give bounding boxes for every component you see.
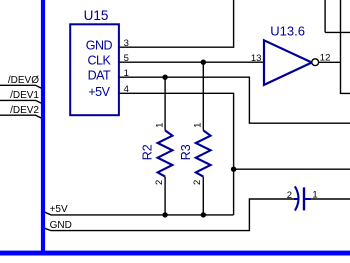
svg-text:1: 1 xyxy=(193,123,204,128)
bus horizontal (bottom border) xyxy=(0,251,350,256)
svg-text:4: 4 xyxy=(124,84,129,95)
wire: R3 bottom lead to +5V rail xyxy=(202,177,204,215)
wire: U15 pin 5 (CLK) to U13 pin 13 xyxy=(119,61,264,63)
inverter U13.6 body xyxy=(264,40,312,85)
wire: R2 top lead from DAT net xyxy=(164,77,166,130)
wire: GND rail from bus to capacitor C pin 2 xyxy=(45,199,295,231)
wire: U15 pin 1 (DAT) right, down, to right edge xyxy=(119,77,350,123)
capacitor C pin 2 lead stub xyxy=(294,198,298,200)
svg-text:3: 3 xyxy=(124,38,129,49)
capacitor C straight plate (pin 1) xyxy=(303,187,305,210)
svg-text:1: 1 xyxy=(124,68,129,79)
svg-text:/DEV1: /DEV1 xyxy=(10,90,39,101)
inverter output bubble xyxy=(312,59,319,66)
svg-text:R3: R3 xyxy=(179,144,193,160)
svg-text:DAT: DAT xyxy=(88,68,111,82)
svg-text:GND: GND xyxy=(50,220,72,231)
wire: top-right stub from top edge to right edge xyxy=(325,0,350,32)
svg-text:/DEV2: /DEV2 xyxy=(10,105,39,116)
resistor R3 body xyxy=(196,130,211,176)
bus vertical (left) xyxy=(41,0,45,255)
svg-text:/DEVØ: /DEVØ xyxy=(8,75,39,86)
wire: net /DEV0 entry to bus xyxy=(0,85,42,88)
junction: CLK / R3 xyxy=(201,60,206,65)
svg-text:+5V: +5V xyxy=(50,204,68,215)
capacitor C pin 1 lead stub xyxy=(304,198,311,200)
capacitor C curved plate (pin 2) xyxy=(295,186,299,210)
junction: +5V branch xyxy=(231,167,236,172)
svg-text:2: 2 xyxy=(192,180,203,185)
wire: net /DEV2 entry to bus xyxy=(0,115,42,118)
svg-text:U15: U15 xyxy=(84,8,109,23)
wire: +5V rail from bus xyxy=(45,212,234,215)
svg-text:CLK: CLK xyxy=(87,53,111,67)
junction: R2 / +5V rail xyxy=(162,212,167,217)
svg-text:U13.6: U13.6 xyxy=(270,23,305,38)
wire: R2 bottom lead to +5V rail xyxy=(164,177,166,215)
wire: R3 top lead from CLK net xyxy=(202,62,204,130)
svg-text:GND: GND xyxy=(86,38,113,52)
svg-text:R2: R2 xyxy=(141,144,155,160)
junction: DAT / R2 xyxy=(162,75,167,80)
junction: R3 / +5V rail xyxy=(201,212,206,217)
svg-text:5: 5 xyxy=(124,53,129,64)
svg-text:1: 1 xyxy=(154,123,165,128)
resistor R2 body xyxy=(158,130,173,176)
wire: +5V branch to right edge xyxy=(234,168,350,170)
svg-text:+5V: +5V xyxy=(88,85,110,99)
wire: capacitor pin 1 to right edge xyxy=(311,198,350,200)
svg-text:2: 2 xyxy=(154,180,165,185)
wire: U15 pin 3 (GND) right then up to top edge xyxy=(119,0,234,47)
svg-text:2: 2 xyxy=(287,190,292,201)
svg-text:13: 13 xyxy=(251,53,262,64)
IC U15 body xyxy=(70,24,119,115)
wire: net /DEV1 entry to bus xyxy=(0,100,42,103)
svg-text:1: 1 xyxy=(312,190,317,201)
wire: U13.6 pin 12 output right then down then to right edge xyxy=(319,0,350,93)
wire: U15 pin 4 (+5V) right then down to +5V rail xyxy=(119,93,234,215)
